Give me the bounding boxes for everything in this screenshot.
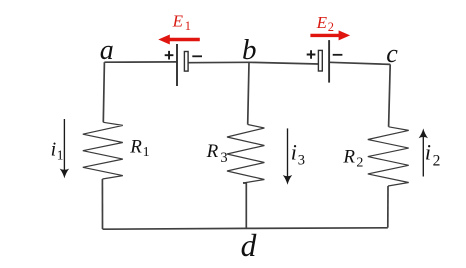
battery E1 short plate [184,52,188,72]
current arrow i1 [63,119,65,172]
wire bottom d [103,228,388,229]
svg-text:2: 2 [356,155,363,170]
wire E2 to c [329,62,390,64]
resistor R1 [83,122,123,179]
resistor R2 [368,127,409,186]
svg-text:1: 1 [185,19,191,33]
svg-text:1: 1 [143,145,150,160]
wire top a to E1 [104,61,177,63]
battery E2 long plate [328,40,330,83]
svg-text:3: 3 [220,150,227,166]
resistor R3 [227,125,264,184]
battery E2 plus sign [307,50,316,59]
svg-text:d: d [241,228,257,263]
svg-text:1: 1 [57,147,64,162]
wire R1 down to bottom [101,179,103,229]
svg-text:R: R [129,137,142,158]
wire R3 down to bottom [243,183,246,228]
battery E1 minus sign [192,55,202,57]
svg-text:b: b [242,34,257,66]
emf arrow E2 [310,34,340,37]
svg-text:2: 2 [328,20,334,34]
wire a down to R1 [103,62,104,122]
emf arrow E1 [168,38,200,41]
svg-text:i: i [291,140,297,165]
battery E2 short plate [318,50,322,71]
battery E1 plus sign [165,51,174,60]
wire c down to R2 [389,64,391,126]
svg-text:E: E [172,12,184,31]
svg-text:a: a [100,35,114,66]
svg-text:3: 3 [298,153,305,169]
svg-text:i: i [51,139,57,161]
wire b down to R3 [248,62,249,124]
battery E2 minus sign [333,54,343,56]
current arrow i2 [422,136,424,177]
wire R2 down to bottom [387,186,389,228]
svg-text:i: i [425,140,431,165]
wire b to E2 [249,62,318,64]
svg-text:2: 2 [433,152,441,169]
wire E1 to b [189,61,250,63]
svg-text:R: R [342,147,355,168]
current arrow i3 [287,128,289,178]
svg-text:R: R [206,141,219,162]
svg-text:c: c [386,39,398,68]
battery E1 long plate [176,44,178,86]
svg-text:E: E [316,13,328,32]
